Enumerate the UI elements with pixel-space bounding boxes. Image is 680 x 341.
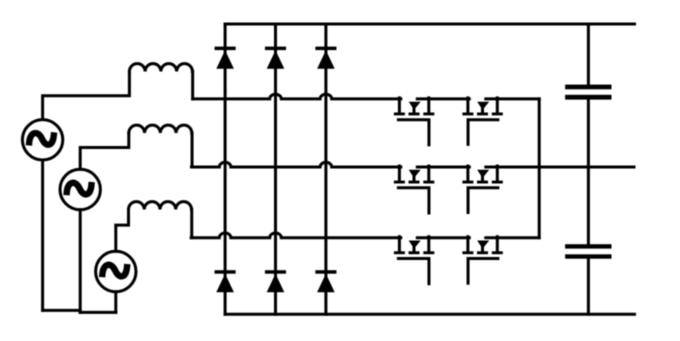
- wire capacitor midpoint: [587, 100, 590, 245]
- inductor L3: [129, 202, 192, 210]
- ac source V1: [22, 120, 62, 160]
- wire Q5 source to Q6 drain: [417, 236, 469, 239]
- wire phase B with hops over columns 1,3: [192, 162, 401, 167]
- transistor Q1: [394, 98, 434, 145]
- transistor Q2: [462, 98, 502, 144]
- wire phase A with hops over columns 2,3: [193, 94, 401, 99]
- wire neutral V2-V3: [80, 311, 116, 314]
- capacitor C1: [565, 85, 611, 100]
- capacitor C2: [565, 244, 611, 259]
- transistor Q5: [394, 237, 434, 284]
- ac source V2: [60, 169, 100, 209]
- wire L3 right drop to node C: [190, 210, 193, 238]
- transistor Q6: [462, 237, 502, 284]
- wire L2 right drop to node B: [191, 133, 194, 167]
- transistor Q4: [462, 166, 502, 213]
- wire V2 bottom lead: [79, 210, 82, 313]
- wire rectifier leg column 2: [274, 24, 277, 314]
- wire L1 right drop to node A: [191, 72, 194, 99]
- wire rectifier leg column 3: [324, 24, 327, 314]
- inductor L2: [129, 125, 192, 133]
- diode D3: [315, 47, 336, 69]
- wire capacitor branch upper: [587, 24, 590, 85]
- diode D2: [265, 47, 286, 69]
- diode D4: [215, 270, 236, 292]
- inductor L1: [129, 64, 192, 72]
- transistor Q3: [394, 166, 434, 213]
- wire V1 bottom lead: [41, 160, 44, 310]
- node A junction dot: [224, 90, 227, 93]
- wire phase C with hops over columns 1,2: [191, 233, 401, 238]
- wire V2 top lead to L2: [80, 133, 129, 169]
- wire neutral V1-V2: [43, 309, 81, 312]
- wire row B to midpoint output: [486, 166, 634, 169]
- wire V3 bottom lead: [114, 292, 117, 313]
- wire DC- bottom rail: [225, 313, 634, 316]
- wire V3 top lead to L3: [116, 210, 129, 252]
- wire capacitor branch lower: [587, 259, 590, 315]
- diode D6: [315, 270, 336, 292]
- wire Q1 source to Q2 drain: [417, 97, 469, 100]
- wire Q2 source to bus: [486, 97, 539, 100]
- wire rectifier leg column 1: [224, 24, 227, 314]
- wire Q3 source to Q4 drain: [417, 166, 469, 169]
- wire Q6 source to bus: [486, 236, 539, 239]
- diode D1: [215, 47, 236, 69]
- ac source V3: [96, 251, 136, 291]
- wire V1 top lead to L1: [43, 72, 130, 120]
- wire DC+ top rail: [225, 23, 634, 26]
- diode D5: [265, 270, 286, 292]
- wire switch common bus: [538, 99, 541, 238]
